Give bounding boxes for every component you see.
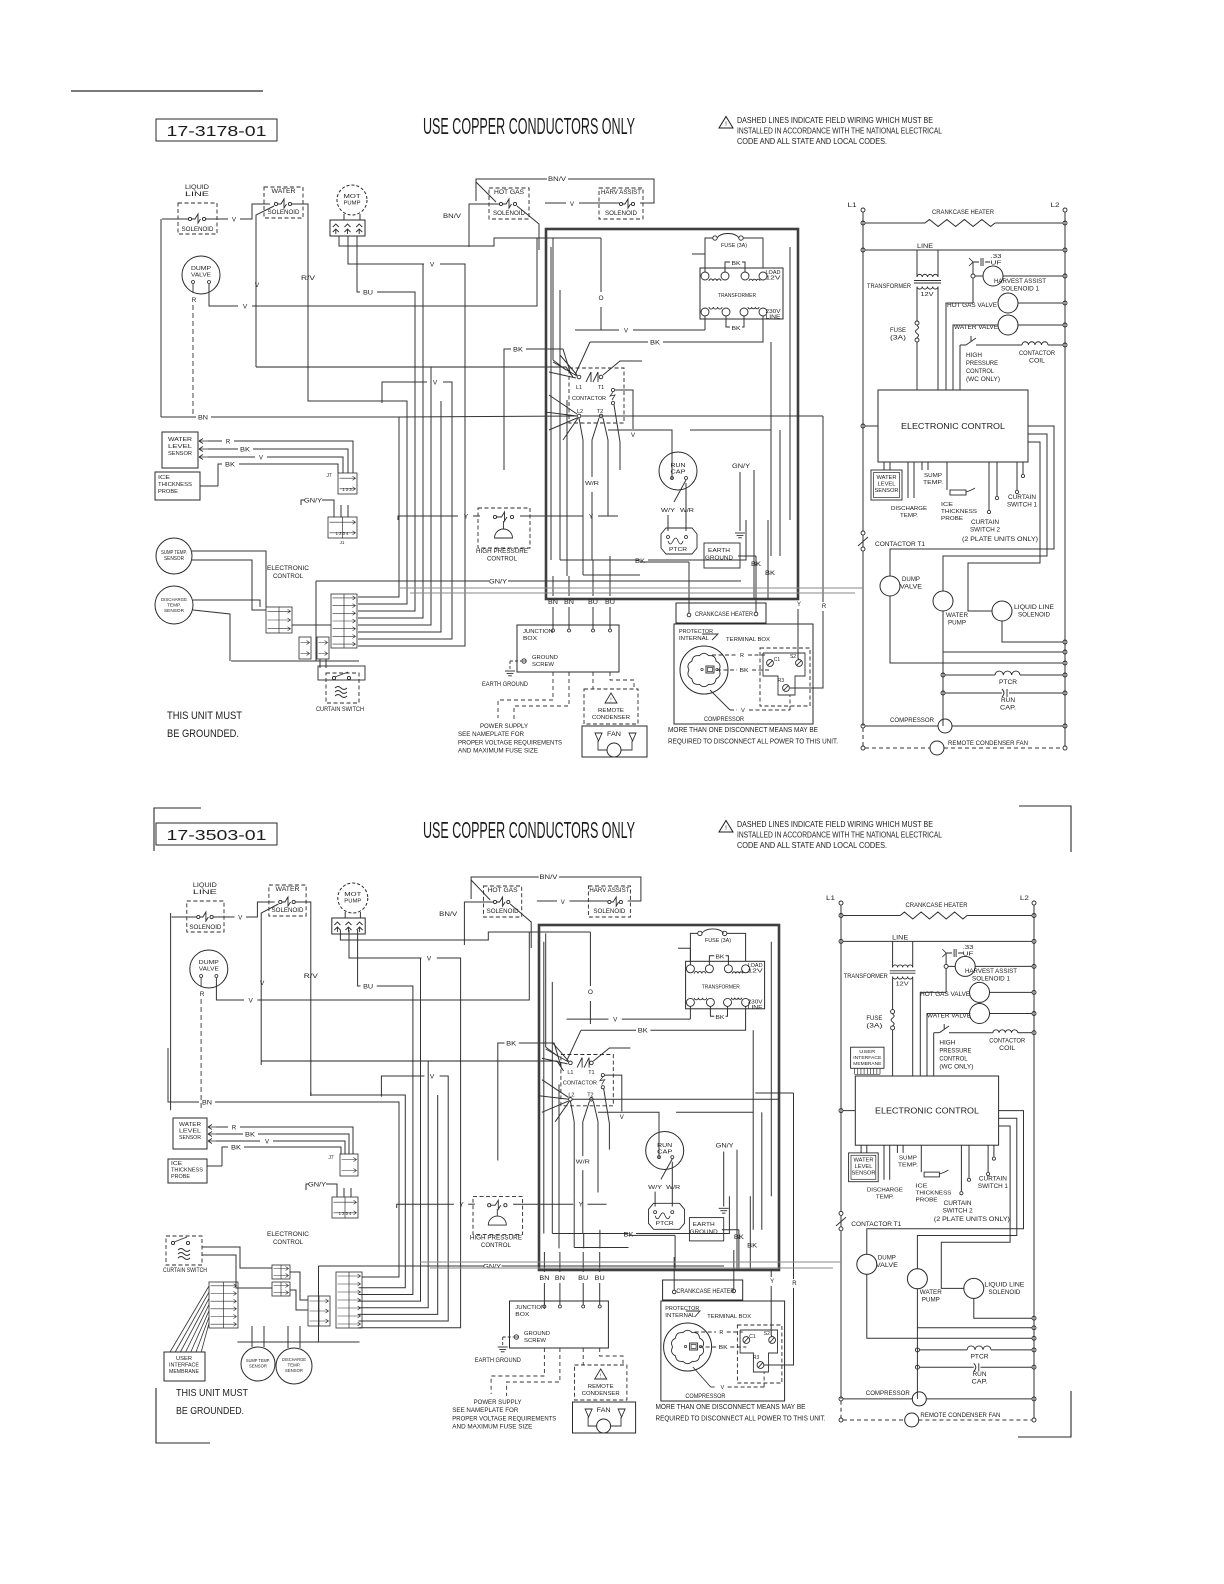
svg-text:PUMP: PUMP [948, 621, 966, 627]
sensor WATER LEVEL SENSOR box [162, 432, 198, 468]
switch harvest assist solenoid contacts [619, 202, 622, 205]
wire liquid line left [162, 218, 188, 220]
wire sensor block to EC connector [292, 624, 331, 626]
wire BN continuation to contactor L2 [399, 416, 576, 417]
svg-text:!: ! [610, 698, 611, 704]
svg-text:REMOTE CONDENSER FAN: REMOTE CONDENSER FAN [948, 740, 1028, 747]
wire inner vertical left edge [543, 942, 545, 1234]
svg-text:V: V [430, 262, 435, 269]
svg-text:S2: S2 [790, 654, 796, 660]
svg-text:USE COPPER CONDUCTORS ONLY: USE COPPER CONDUCTORS ONLY [423, 113, 635, 139]
svg-text:EARTH: EARTH [708, 548, 730, 554]
heater block under pump [332, 918, 365, 934]
svg-text:V: V [249, 998, 254, 1005]
svg-text:SCREW: SCREW [524, 1338, 547, 1344]
svg-text:MOT: MOT [344, 892, 362, 898]
warning triangle [719, 117, 733, 129]
svg-text:TRANSFORMER: TRANSFORMER [718, 293, 756, 299]
svg-text:DISCHARGE: DISCHARGE [891, 506, 927, 512]
junction JUNCTION BOX [510, 1301, 609, 1348]
svg-text:V: V [243, 304, 248, 311]
svg-text:CAP: CAP [671, 470, 686, 476]
svg-text:HIGH: HIGH [966, 353, 982, 359]
svg-text:DISCHARGE: DISCHARGE [161, 597, 187, 603]
pump WATER PUMP ladder [933, 591, 953, 611]
wire power supply dashed 2 [507, 1348, 560, 1396]
heater CRANKCASE HEATER box [676, 603, 766, 623]
wire heater leg 3 BU [358, 930, 361, 986]
solenoid LIQUID LINE dashed box [178, 203, 217, 234]
svg-text:GN/Y: GN/Y [732, 464, 750, 470]
wire inner vertical right long [789, 247, 791, 520]
svg-text:SENSOR: SENSOR [852, 1170, 876, 1176]
fan REMOTE CONDENSER FAN rung [840, 1401, 842, 1418]
svg-text:LINE: LINE [766, 315, 782, 321]
pump MOT PUMP circle [337, 185, 367, 215]
wire bundle vertical a [359, 958, 421, 1301]
svg-text:AND MAXIMUM FUSE SIZE: AND MAXIMUM FUSE SIZE [458, 748, 539, 755]
svg-text:1 2 3 4: 1 2 3 4 [336, 531, 349, 536]
svg-text:(3A): (3A) [890, 336, 906, 342]
wire inner verticals mid [558, 1084, 560, 1248]
wire ground screw dashed [503, 1336, 514, 1338]
svg-text:BK: BK [245, 1133, 255, 1139]
wires BN BU drops [543, 1252, 545, 1272]
solenoid WATER SOLENOID dashed box [264, 187, 303, 218]
svg-text:VALVE: VALVE [876, 1263, 898, 1269]
svg-text:THICKNESS: THICKNESS [916, 1191, 952, 1197]
wire protector pointer [686, 1311, 700, 1317]
svg-text:FUSE: FUSE [866, 1016, 882, 1022]
wire inner bottom horizontals [560, 559, 596, 561]
transformer secondary coils [686, 998, 694, 1006]
svg-text:LINE: LINE [185, 192, 209, 198]
svg-text:SOLENOID: SOLENOID [487, 909, 520, 915]
wire V trunk dark [261, 1061, 563, 1071]
wire left rail V->BN [170, 913, 172, 1110]
capacitor RUN CAP circle [659, 452, 697, 490]
switch CURTAIN SWITCH 1 ladder [1016, 462, 1018, 490]
wire BK inside box [581, 1029, 636, 1031]
svg-text:COMPRESSOR: COMPRESSOR [890, 717, 935, 724]
screw GROUND SCREW [514, 1335, 518, 1339]
svg-text:Y: Y [459, 1202, 464, 1209]
svg-text:RUN: RUN [973, 1372, 987, 1378]
switch water solenoid contacts [274, 202, 277, 205]
fan motor circle [607, 743, 621, 757]
svg-text:R: R [192, 297, 197, 304]
wire V dashed motor bottom [710, 690, 730, 710]
svg-text:INTERFACE: INTERFACE [853, 1055, 881, 1061]
fan motor circle [597, 1419, 611, 1433]
solenoid HARVEST ASSIST SOLENOID 1 [983, 266, 1003, 286]
svg-text:RUN: RUN [671, 463, 686, 469]
svg-text:CONDENSER: CONDENSER [592, 715, 630, 721]
svg-text:V: V [570, 202, 574, 208]
wire BK jumper bottom [710, 1006, 714, 1016]
svg-text:W/R: W/R [666, 1185, 680, 1191]
wire lower horizontal to sensors [231, 660, 316, 662]
wire bundle vertical b [359, 1061, 429, 1308]
svg-text:SUMP: SUMP [899, 1156, 917, 1162]
wire BN/V bracket [476, 179, 547, 201]
svg-text:R: R [200, 991, 205, 998]
terminal box inner T shape [763, 653, 805, 695]
wire liquid line left [172, 916, 197, 918]
svg-text:L1: L1 [576, 385, 582, 391]
svg-text:TEMP.: TEMP. [923, 480, 943, 486]
wire fuse right down [743, 238, 763, 268]
wire run cap feeds [598, 1112, 659, 1159]
wire ladder left rail [862, 212, 864, 531]
wire BK diagonal to contactor [567, 1030, 581, 1061]
wire R from L2 to right edge [581, 415, 798, 417]
svg-text:SWITCH 1: SWITCH 1 [1007, 503, 1038, 509]
transformer primary coils [701, 272, 709, 280]
svg-text:PTCR: PTCR [971, 1355, 990, 1361]
wire left rail to EC [839, 1109, 843, 1113]
wire water solenoid V drop [261, 904, 278, 1065]
wire hot gas right diagonal down [510, 904, 531, 948]
svg-text:BK: BK [650, 341, 660, 347]
svg-text:BK: BK [715, 955, 724, 961]
capacitor RUN CAP rung [915, 1365, 919, 1369]
switch CURTAIN SWITCH 2 ladder [960, 1145, 962, 1191]
svg-text:THICKNESS: THICKNESS [158, 482, 192, 488]
switch CONTACTOR T1 on rail [861, 531, 865, 535]
svg-text:BK: BK [719, 1345, 728, 1351]
title block 17-3178-01 [156, 119, 277, 141]
label GN/Y hook [301, 500, 305, 505]
ground EARTH GROUND symbol [498, 1346, 508, 1348]
terminal box dashed outline [760, 648, 810, 706]
svg-text:DISCHARGE: DISCHARGE [867, 1187, 903, 1193]
svg-text:PROPER VOLTAGE REQUIREMENTS: PROPER VOLTAGE REQUIREMENTS [458, 739, 563, 746]
svg-text:SOLENOID: SOLENOID [189, 925, 222, 931]
svg-text:V: V [232, 218, 236, 224]
svg-text:W/R: W/R [585, 481, 599, 487]
svg-text:V: V [427, 956, 432, 963]
wire power supply dashed 1 [491, 1348, 544, 1394]
svg-text:HIGH: HIGH [939, 1040, 955, 1046]
wire R dashed motor to terminal [712, 654, 736, 656]
wire R/V trunk [308, 398, 407, 604]
svg-text:SOLENOID: SOLENOID [1018, 613, 1051, 619]
wire EC right feeds [890, 426, 1054, 576]
svg-text:HARV ASSIST: HARV ASSIST [589, 888, 629, 894]
wire compressor trunk [942, 652, 944, 726]
svg-text:(3A): (3A) [866, 1024, 882, 1030]
wire LINE rung [839, 939, 843, 943]
svg-text:PUMP: PUMP [344, 898, 361, 904]
svg-text:CAP.: CAP. [1000, 706, 1016, 712]
ground EARTH GROUND symbol [505, 670, 515, 672]
connector JA JB blocks [272, 1265, 290, 1279]
probe ICE THICKNESS ladder [920, 1145, 922, 1172]
coil CONTACTOR COIL [993, 1030, 1018, 1033]
sensor DISCHARGE TEMP SENSOR circle [155, 586, 193, 624]
contactor CONTACTOR dashed box [569, 368, 624, 423]
wire Y to high pressure control [397, 1204, 454, 1208]
svg-text:CURTAIN: CURTAIN [944, 1201, 972, 1207]
svg-text:BN/V: BN/V [539, 874, 558, 881]
svg-text:V: V [433, 380, 438, 387]
svg-text:THICKNESS: THICKNESS [941, 509, 977, 515]
solenoid WATER SOLENOID dashed box [269, 885, 306, 916]
svg-text:VALVE: VALVE [191, 273, 211, 279]
svg-text:POWER SUPPLY: POWER SUPPLY [474, 1399, 523, 1406]
svg-text:GN/Y: GN/Y [308, 1183, 326, 1189]
svg-text:SCREW: SCREW [532, 662, 555, 668]
wire Y down right of box [797, 592, 799, 600]
sensor SUMP TEMP SENSOR circle [241, 1347, 275, 1381]
wire V to water solenoid [214, 916, 235, 918]
svg-text:COMPRESSOR: COMPRESSOR [685, 1394, 726, 1400]
svg-text:V: V [238, 916, 242, 922]
switch high pressure control ladder [934, 1032, 940, 1034]
svg-text:WATER: WATER [168, 437, 192, 443]
svg-text:BN: BN [539, 1275, 549, 1282]
solenoid LIQUID LINE SOLENOID ladder [992, 601, 1012, 621]
svg-text:COIL: COIL [999, 1046, 1016, 1052]
enclosure control box border [546, 229, 798, 599]
svg-text:SENSOR: SENSOR [285, 1368, 304, 1373]
motor compressor stator circle [680, 646, 728, 694]
svg-text:V: V [255, 282, 260, 289]
svg-text:Y: Y [797, 602, 801, 608]
wire dump valve V [209, 284, 238, 306]
svg-text:BK: BK [513, 347, 524, 354]
heater CRANKCASE HEATER box [663, 1280, 743, 1300]
svg-text:(WC ONLY): (WC ONLY) [939, 1064, 973, 1070]
svg-text:HOT GAS: HOT GAS [488, 888, 518, 894]
svg-text:V: V [259, 456, 263, 462]
svg-text:L1: L1 [826, 895, 835, 902]
wire middle block feeds [290, 1272, 308, 1300]
wire V mid horizontal [382, 382, 427, 403]
svg-text:CONTROL: CONTROL [966, 369, 995, 375]
svg-text:R: R [792, 1281, 797, 1287]
wire BN/V diagonal to hot gas [471, 880, 490, 900]
svg-text:.33: .33 [991, 254, 1002, 260]
wire fuse left to box edge [690, 933, 698, 961]
svg-text:REMOTE: REMOTE [588, 1384, 614, 1390]
wire Y from high pressure control to box [513, 1203, 573, 1205]
wire sump sensor up [251, 1326, 253, 1347]
wire BK from water level sensor [208, 448, 238, 450]
membrane USER INTERFACE MEMBRANE ladder box [851, 1047, 884, 1068]
svg-text:SEE NAMEPLATE FOR: SEE NAMEPLATE FOR [458, 731, 524, 738]
switch CURTAIN SWITCH 1 ladder [987, 1145, 989, 1172]
svg-text:SWITCH 2: SWITCH 2 [970, 528, 1001, 534]
wire BK jumper top [709, 956, 714, 965]
svg-text:CODE AND ALL STATE AND LOCAL C: CODE AND ALL STATE AND LOCAL CODES. [737, 841, 887, 850]
svg-text:TEMP.: TEMP. [898, 1163, 918, 1169]
svg-text:GN/Y: GN/Y [304, 499, 322, 505]
wire T2 legs down [592, 418, 599, 477]
wire water valve feed [927, 1014, 970, 1077]
label SUMP TEMP [896, 1145, 898, 1153]
wire BK diagonal to contactor [575, 342, 590, 375]
wire pump to heater legs [343, 214, 345, 220]
svg-text:L2: L2 [577, 409, 583, 415]
svg-text:ELECTRONIC: ELECTRONIC [267, 1231, 309, 1238]
svg-text:REMOTE: REMOTE [598, 708, 624, 714]
sensor WATER LEVEL SENSOR ladder box [860, 1145, 862, 1153]
wire ground screw dashed [510, 660, 521, 662]
wire harvest assist rung [1063, 274, 1067, 278]
svg-text:SWITCH 2: SWITCH 2 [943, 1208, 974, 1214]
border corner mark top-left [154, 808, 201, 851]
wire V dashed motor bottom [693, 1367, 711, 1387]
wire fuse right down [727, 933, 746, 961]
svg-text:USE COPPER CONDUCTORS ONLY: USE COPPER CONDUCTORS ONLY [423, 817, 635, 843]
connector EC main block [331, 594, 357, 648]
wire hot gas valve feed [920, 992, 946, 1076]
wire discharge sensor up [287, 1326, 289, 1348]
svg-text:!: ! [600, 1374, 601, 1380]
wire lower horizontal to sensors [237, 1341, 318, 1343]
wire transformer left pins [692, 254, 705, 272]
wire gn/y into J1 [330, 500, 334, 517]
svg-text:BK: BK [732, 326, 741, 332]
switch high pressure control ladder [960, 344, 966, 346]
svg-text:.33: .33 [963, 945, 974, 951]
svg-text:WATER VALVE: WATER VALVE [954, 325, 998, 331]
wire GN/Y drop to lower rail [316, 581, 359, 661]
svg-text:HARVEST ASSIST: HARVEST ASSIST [965, 969, 1017, 975]
svg-text:LEVEL: LEVEL [878, 481, 896, 487]
svg-text:LIQUID: LIQUID [185, 185, 210, 191]
svg-text:INSTALLED IN ACCORDANCE WITH T: INSTALLED IN ACCORDANCE WITH THE NATIONA… [737, 831, 942, 840]
wire BK bottom left [600, 559, 631, 561]
switch harvest assist solenoid contacts [608, 900, 611, 903]
svg-text:GN/Y: GN/Y [489, 579, 508, 586]
svg-text:PROBE: PROBE [916, 1198, 938, 1204]
solenoid LIQUID LINE SOLENOID ladder [964, 1278, 984, 1298]
wire Y to high pressure control [398, 516, 458, 520]
svg-text:ELECTRONIC CONTROL: ELECTRONIC CONTROL [875, 1106, 979, 1116]
wire dump valve to merge [867, 1274, 1032, 1338]
svg-text:CRANKCASE HEATER: CRANKCASE HEATER [676, 1288, 734, 1295]
svg-text:TERMINAL BOX: TERMINAL BOX [726, 637, 770, 643]
wire BN horizontal [168, 1048, 199, 1102]
wire R down right of box [822, 416, 824, 602]
wire R from L2 to right edge [572, 1098, 779, 1100]
ground EARTH GROUND inside box [735, 532, 745, 534]
switch HIGH PRESSURE CONTROL dashed box [478, 508, 530, 548]
contactor aux switch [611, 388, 614, 391]
wire grey link lines to ladder [400, 587, 863, 589]
contactor L1 T1 contacts [569, 1061, 573, 1065]
wire remote condenser dashed feeds [582, 1348, 584, 1365]
border corner mark bottom-right diag1 [1019, 806, 1071, 852]
svg-text:PROBE: PROBE [941, 516, 963, 522]
wire GN/Y long [316, 580, 489, 582]
wire T1 diagonal up-right [603, 361, 642, 375]
svg-text:12V: 12V [748, 969, 764, 975]
svg-text:LINE: LINE [193, 890, 217, 896]
label SUMP TEMP [921, 462, 923, 470]
svg-text:GROUND: GROUND [532, 655, 558, 661]
svg-text:DASHED LINES INDICATE FIELD WI: DASHED LINES INDICATE FIELD WIRING WHICH… [737, 116, 933, 125]
protector square inside motor [690, 1343, 698, 1350]
svg-text:ICE: ICE [171, 1161, 182, 1167]
svg-text:R3: R3 [753, 1355, 760, 1361]
valve HOT GAS VALVE [970, 982, 990, 1002]
svg-text:CONTACTOR T1: CONTACTOR T1 [875, 541, 926, 548]
svg-text:DUMP: DUMP [199, 960, 219, 966]
svg-text:VALVE: VALVE [900, 585, 922, 591]
sensor DISCHARGE TEMP SENSOR circle [276, 1348, 312, 1384]
wire water pump to merge [943, 611, 1063, 652]
svg-text:CONTACTOR: CONTACTOR [572, 396, 606, 402]
svg-text:SENSOR: SENSOR [168, 451, 192, 457]
wire discharge sensor wires [193, 600, 260, 607]
svg-text:THIS UNIT MUST: THIS UNIT MUST [176, 1388, 248, 1399]
contactor CONTACTOR dashed box [561, 1055, 613, 1106]
svg-text:PTCR: PTCR [669, 547, 687, 553]
wire gn/y into J1 [334, 1184, 337, 1197]
svg-text:HOT GAS VALVE: HOT GAS VALVE [947, 303, 997, 309]
wire BK trunk [504, 349, 511, 470]
svg-text:SOLENOID: SOLENOID [493, 211, 526, 217]
wire fan into L2 [542, 1080, 569, 1098]
svg-text:S2: S2 [764, 1331, 770, 1337]
svg-text:HARV ASSIST: HARV ASSIST [601, 190, 641, 196]
wire heater leg 2 V [348, 236, 424, 264]
svg-text:ICE: ICE [158, 475, 170, 481]
svg-text:17-3503-01: 17-3503-01 [167, 827, 267, 844]
wire water solenoid right R/V [296, 902, 311, 1096]
svg-text:BU: BU [595, 1275, 605, 1282]
contactor aux switch [601, 1074, 604, 1077]
wire fan from L1 upper-left [552, 1042, 568, 1061]
svg-text:HIGH PRESSURE: HIGH PRESSURE [476, 549, 528, 555]
solenoid HOT GAS dashed box [484, 886, 522, 917]
wire harvest to hot gas vertical [945, 968, 947, 992]
wire V from water level sensor [208, 456, 255, 458]
svg-text:ICE: ICE [941, 502, 953, 508]
svg-text:PRESSURE: PRESSURE [939, 1048, 971, 1054]
switch CONTACTOR T1 on rail [839, 1211, 843, 1215]
wire curtain switch to blocks [202, 1247, 272, 1268]
svg-text:CONTROL: CONTROL [487, 557, 518, 563]
solenoid LIQUID LINE dashed box [187, 901, 224, 932]
wire V to water solenoid [206, 218, 228, 220]
contactor L2 T2 contacts [577, 414, 581, 418]
svg-text:CONTROL: CONTROL [481, 1243, 512, 1249]
svg-text:BU: BU [363, 984, 373, 991]
wire left inner verticals [552, 238, 554, 360]
wire pump to heater legs [344, 912, 346, 918]
svg-text:BK: BK [740, 668, 749, 674]
capacitor .33 UF harvest [973, 258, 990, 266]
svg-text:MEMBRANE: MEMBRANE [853, 1061, 881, 1067]
svg-text:CURTAIN: CURTAIN [971, 520, 999, 526]
svg-text:BU: BU [605, 599, 615, 606]
coil CONTACTOR COIL [1022, 342, 1048, 345]
control ELECTRONIC CONTROL box [855, 1076, 998, 1145]
svg-text:CURTAIN: CURTAIN [979, 1177, 1007, 1183]
wire BK bottom verticals [636, 1196, 729, 1233]
switch HIGH PRESSURE CONTROL dashed box [473, 1197, 523, 1235]
fan FAN box [573, 1402, 636, 1433]
valve WATER VALVE [998, 315, 1018, 335]
svg-text:L2: L2 [1020, 895, 1029, 902]
capacitor RUN CAP rung [941, 691, 945, 695]
wire fuse left to box edge [705, 238, 713, 268]
